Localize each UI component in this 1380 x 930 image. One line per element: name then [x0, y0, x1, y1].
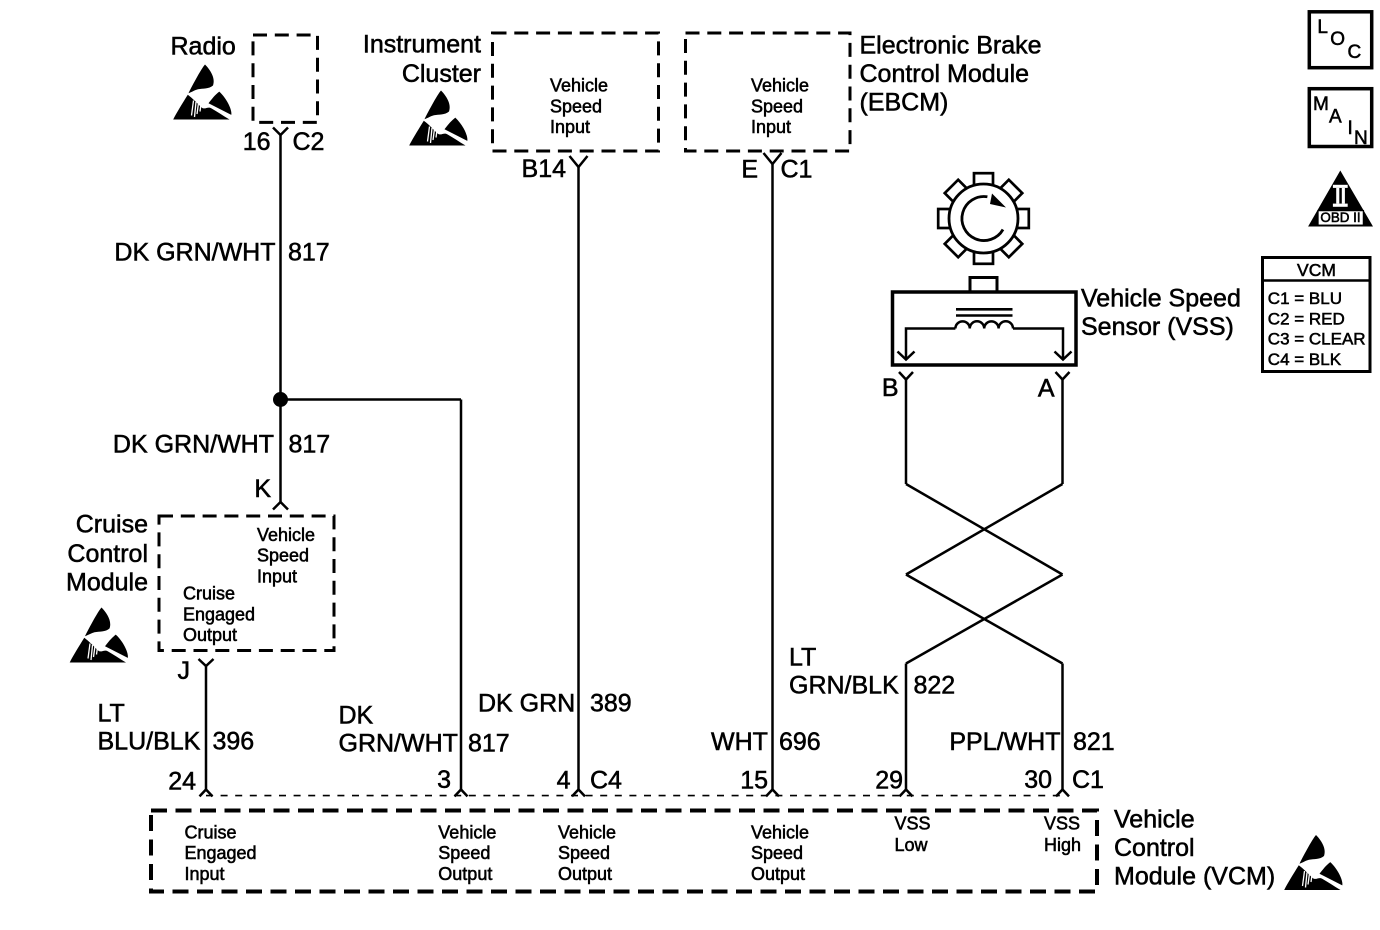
- svg-text:C1 = BLU: C1 = BLU: [1268, 289, 1342, 308]
- svg-text:396: 396: [213, 728, 255, 756]
- svg-text:Electronic Brake: Electronic Brake: [860, 32, 1042, 60]
- svg-text:BLU/BLK: BLU/BLK: [98, 728, 201, 756]
- wire branch vertical to VCM pin 3: [460, 400, 463, 790]
- svg-text:15: 15: [740, 767, 768, 795]
- svg-text:Control: Control: [67, 540, 148, 568]
- svg-text:Input: Input: [257, 566, 297, 586]
- svg-text:A: A: [1329, 106, 1342, 127]
- svg-text:B: B: [882, 374, 899, 402]
- svg-text:DK GRN/WHT: DK GRN/WHT: [114, 239, 275, 267]
- twisted pair crossing segment 1: [906, 484, 1063, 575]
- svg-text:Vehicle: Vehicle: [257, 525, 315, 545]
- svg-text:Vehicle: Vehicle: [751, 76, 809, 96]
- VSS internal wire left: [906, 329, 955, 359]
- ESD symbol (Cruise Control Module): [70, 608, 128, 663]
- svg-text:L: L: [1317, 17, 1328, 38]
- ESD symbol (VCM): [1284, 835, 1342, 890]
- pin B connector symbol: [899, 372, 913, 380]
- svg-text:29: 29: [875, 767, 903, 795]
- svg-text:Engaged: Engaged: [183, 604, 255, 624]
- VSS pole piece core lines: [956, 309, 1013, 315]
- svg-text:Cruise: Cruise: [76, 511, 148, 539]
- ESD symbol (Instrument Cluster): [409, 91, 467, 146]
- pin 16 connector symbol: [273, 128, 288, 136]
- pin 3 connector symbol: [455, 790, 468, 797]
- svg-text:O: O: [1330, 29, 1345, 50]
- svg-text:4: 4: [557, 767, 571, 795]
- wire DK GRN/WHT 817 from Radio to junction to K: [279, 135, 282, 502]
- wire branch from junction to VCM pin 3 (horizontal): [281, 398, 462, 401]
- pin E connector symbol: [764, 153, 782, 164]
- svg-text:VSS: VSS: [1044, 814, 1080, 834]
- svg-text:Output: Output: [558, 864, 612, 884]
- svg-text:Output: Output: [438, 864, 492, 884]
- wire DK GRN 389 from B14 to VCM pin 4: [577, 167, 580, 790]
- wire LT GRN/BLK 822 to VCM pin 29: [905, 664, 908, 790]
- svg-text:Speed: Speed: [558, 843, 610, 863]
- svg-text:PPL/WHT: PPL/WHT: [949, 728, 1060, 756]
- svg-text:B14: B14: [522, 155, 567, 183]
- twisted pair crossing segment 4: [906, 575, 1063, 664]
- svg-text:Cruise: Cruise: [183, 584, 235, 604]
- svg-text:817: 817: [288, 239, 330, 267]
- wire LT BLU/BLK 396 from J to VCM pin 24: [205, 666, 208, 790]
- wire PPL/WHT 821 to VCM pin 30: [1061, 664, 1064, 790]
- Radio connector box (dashed): [253, 35, 318, 122]
- twisted pair crossing segment 2: [906, 484, 1063, 575]
- svg-text:Low: Low: [895, 835, 929, 855]
- svg-text:Control: Control: [1114, 834, 1195, 862]
- svg-text:(EBCM): (EBCM): [860, 89, 949, 117]
- pin J connector symbol: [199, 659, 214, 666]
- svg-text:C2 = RED: C2 = RED: [1268, 309, 1345, 328]
- VCM connector dashed line: [206, 795, 1063, 797]
- svg-text:Cruise: Cruise: [185, 822, 237, 842]
- VSS coil winding: [955, 321, 1013, 328]
- pin 29 connector symbol: [900, 790, 913, 797]
- wire WHT 696 from EBCM E to VCM pin 15: [771, 164, 774, 790]
- svg-text:Input: Input: [751, 117, 791, 137]
- svg-text:M: M: [1313, 94, 1329, 115]
- svg-text:High: High: [1044, 835, 1081, 855]
- svg-text:VCM: VCM: [1297, 260, 1336, 280]
- svg-text:Control Module: Control Module: [860, 60, 1030, 88]
- svg-text:Cluster: Cluster: [402, 60, 481, 88]
- svg-text:24: 24: [168, 768, 196, 796]
- svg-text:Speed: Speed: [550, 96, 602, 116]
- svg-text:LT: LT: [98, 700, 125, 728]
- svg-text:N: N: [1354, 128, 1368, 149]
- svg-text:Sensor (VSS): Sensor (VSS): [1081, 313, 1234, 341]
- wire from VSS B (vertical): [905, 380, 908, 485]
- svg-text:C3 = CLEAR: C3 = CLEAR: [1268, 330, 1366, 349]
- svg-text:Input: Input: [550, 117, 590, 137]
- svg-text:Module: Module: [66, 569, 148, 597]
- Cruise Control Module box (dashed): [159, 516, 334, 651]
- VCM connector color table: [1263, 258, 1371, 372]
- svg-text:Module (VCM): Module (VCM): [1114, 863, 1275, 891]
- svg-text:16: 16: [243, 128, 271, 156]
- svg-text:DK GRN/WHT: DK GRN/WHT: [113, 431, 274, 459]
- svg-text:J: J: [178, 657, 191, 685]
- svg-text:Speed: Speed: [751, 843, 803, 863]
- svg-text:Speed: Speed: [438, 843, 490, 863]
- svg-text:WHT: WHT: [711, 728, 768, 756]
- svg-text:Radio: Radio: [171, 33, 236, 61]
- svg-text:C1: C1: [781, 156, 813, 184]
- svg-text:30: 30: [1024, 766, 1052, 794]
- svg-text:DK GRN: DK GRN: [478, 690, 575, 718]
- ESD symbol (Radio): [173, 65, 231, 120]
- svg-text:DK: DK: [339, 702, 374, 730]
- svg-text:K: K: [254, 475, 271, 503]
- svg-text:Vehicle: Vehicle: [550, 76, 608, 96]
- LOC box: [1309, 12, 1371, 68]
- svg-text:E: E: [741, 156, 758, 184]
- svg-text:C4 = BLK: C4 = BLK: [1268, 350, 1342, 369]
- svg-text:C: C: [1348, 42, 1362, 63]
- svg-text:Engaged: Engaged: [185, 843, 257, 863]
- svg-text:Output: Output: [183, 625, 237, 645]
- svg-text:I: I: [1348, 118, 1353, 139]
- twisted pair crossing segment 3: [906, 575, 1063, 664]
- wire from VSS A (vertical): [1061, 380, 1064, 485]
- Instrument Cluster box (dashed): [493, 33, 659, 151]
- pin 24 connector symbol: [200, 790, 213, 797]
- pin 30 connector symbol: [1056, 790, 1069, 797]
- VSS body box: [893, 292, 1077, 365]
- VSS reluctor gear wheel: [938, 173, 1029, 264]
- svg-text:389: 389: [590, 690, 632, 718]
- svg-text:817: 817: [468, 730, 510, 758]
- svg-text:Vehicle: Vehicle: [558, 822, 616, 842]
- pin K connector symbol: [273, 502, 288, 510]
- svg-text:817: 817: [289, 431, 331, 459]
- VSS mounting stub: [970, 278, 997, 294]
- svg-text:C4: C4: [590, 767, 622, 795]
- svg-text:Vehicle: Vehicle: [1114, 806, 1195, 834]
- svg-text:C1: C1: [1072, 766, 1104, 794]
- svg-text:OBD II: OBD II: [1320, 210, 1360, 225]
- svg-text:Instrument: Instrument: [363, 31, 481, 59]
- svg-text:Vehicle: Vehicle: [438, 822, 496, 842]
- svg-text:Speed: Speed: [751, 96, 803, 116]
- svg-text:GRN/WHT: GRN/WHT: [339, 730, 458, 758]
- VSS internal wire right: [1013, 329, 1063, 359]
- svg-text:A: A: [1038, 375, 1055, 403]
- svg-text:LT: LT: [789, 644, 816, 672]
- VCM box (dashed): [151, 811, 1097, 892]
- pin B14 connector symbol: [570, 156, 588, 167]
- svg-text:GRN/BLK: GRN/BLK: [789, 672, 899, 700]
- svg-text:Vehicle Speed: Vehicle Speed: [1081, 285, 1241, 313]
- svg-text:696: 696: [779, 728, 821, 756]
- pin A connector symbol: [1056, 372, 1070, 380]
- svg-text:822: 822: [914, 672, 956, 700]
- svg-text:Input: Input: [185, 864, 225, 884]
- svg-text:Speed: Speed: [257, 546, 309, 566]
- pin 4 connector symbol: [572, 790, 585, 797]
- pin 15 connector symbol: [766, 790, 779, 797]
- svg-text:821: 821: [1073, 728, 1115, 756]
- junction node on radio wire: [273, 392, 288, 407]
- OBD II symbol: [1308, 171, 1373, 227]
- EBCM box (dashed): [686, 33, 851, 151]
- svg-text:VSS: VSS: [895, 814, 931, 834]
- MAIN box: [1309, 89, 1371, 149]
- svg-text:Vehicle: Vehicle: [751, 822, 809, 842]
- svg-text:Output: Output: [751, 864, 805, 884]
- rotation arrow inside gear: [962, 197, 1003, 241]
- svg-text:C2: C2: [293, 128, 325, 156]
- svg-text:3: 3: [437, 766, 451, 794]
